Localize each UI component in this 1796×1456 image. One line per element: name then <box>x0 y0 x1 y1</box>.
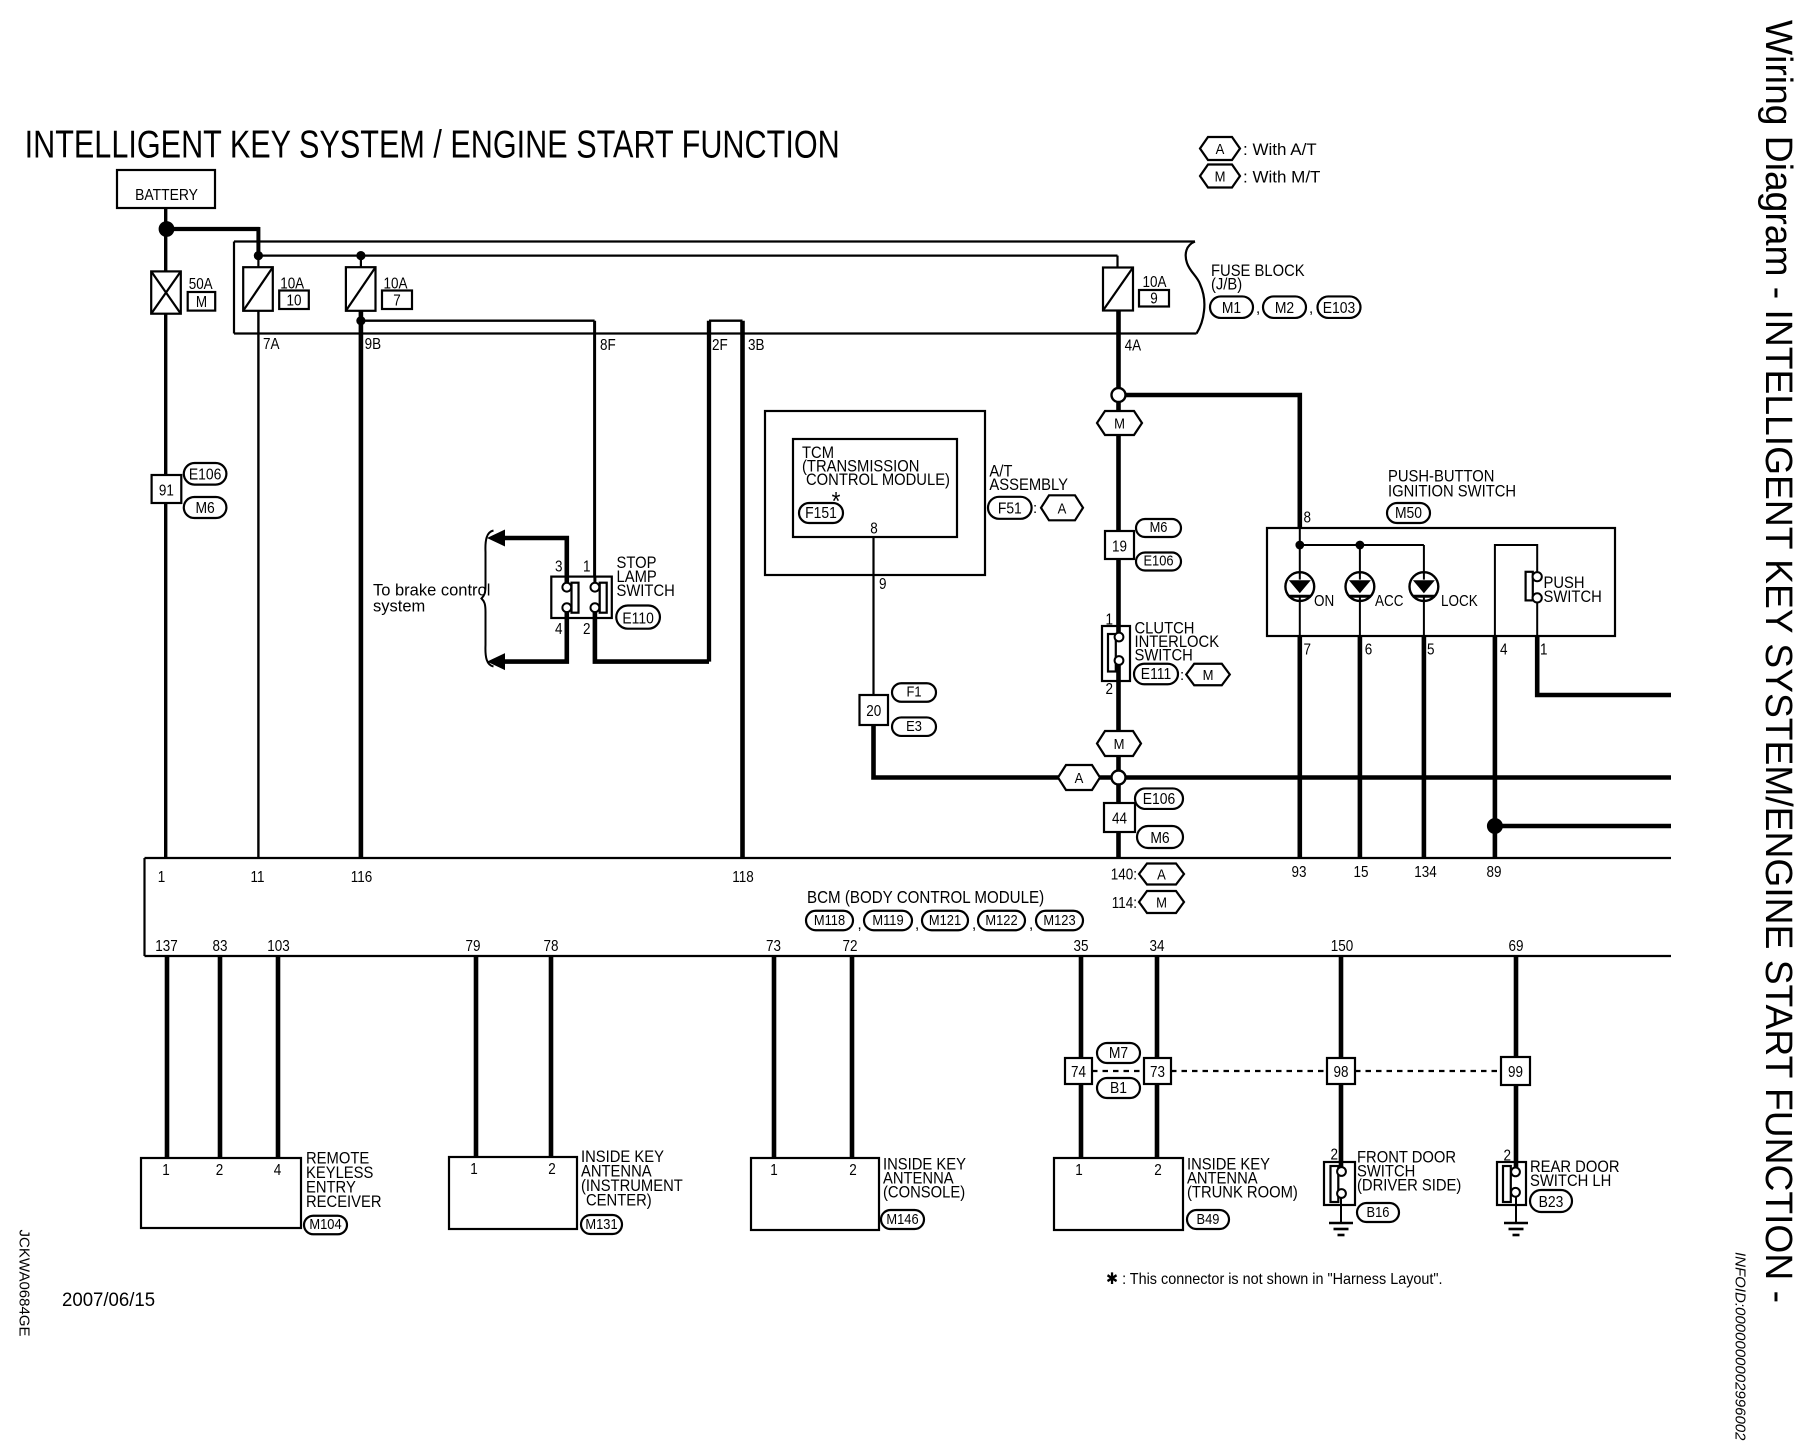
svg-text:M6: M6 <box>195 499 214 517</box>
svg-text:11: 11 <box>251 869 265 886</box>
svg-text:E111: E111 <box>1141 665 1171 683</box>
svg-text:B1: B1 <box>1110 1079 1127 1097</box>
svg-text:1: 1 <box>1106 612 1113 629</box>
svg-text:4: 4 <box>555 621 562 638</box>
svg-text:4A: 4A <box>1125 338 1142 355</box>
svg-text::: : <box>1033 500 1037 517</box>
svg-text:(TRUNK ROOM): (TRUNK ROOM) <box>1187 1184 1298 1202</box>
svg-text:A: A <box>1058 499 1067 516</box>
svg-text:2: 2 <box>1331 1147 1338 1164</box>
svg-text:,: , <box>858 916 862 933</box>
svg-text:93: 93 <box>1292 864 1307 881</box>
svg-text:B16: B16 <box>1367 1203 1390 1220</box>
svg-text:20: 20 <box>866 703 881 720</box>
svg-text:SWITCH: SWITCH <box>1135 647 1193 665</box>
svg-text:M: M <box>1215 168 1226 185</box>
svg-text:SWITCH: SWITCH <box>617 582 675 600</box>
svg-text:116: 116 <box>351 869 372 886</box>
svg-text:73: 73 <box>766 938 781 955</box>
svg-text:B23: B23 <box>1539 1193 1564 1211</box>
svg-text:A: A <box>1216 140 1225 157</box>
svg-text:44: 44 <box>1112 811 1127 828</box>
svg-text:: With A/T: : With A/T <box>1243 140 1317 159</box>
svg-text:M: M <box>1156 894 1167 911</box>
svg-text:ON: ON <box>1314 593 1334 610</box>
svg-text:79: 79 <box>466 938 481 955</box>
svg-text:,: , <box>1256 300 1260 317</box>
svg-text:M: M <box>1114 415 1125 432</box>
svg-text:118: 118 <box>732 869 753 886</box>
svg-text:E103: E103 <box>1323 299 1355 317</box>
svg-text:7A: 7A <box>263 336 280 353</box>
svg-text:8: 8 <box>870 521 877 538</box>
svg-text:99: 99 <box>1508 1064 1523 1081</box>
svg-text:114:: 114: <box>1112 895 1137 912</box>
svg-text:M: M <box>196 294 207 311</box>
svg-text:M: M <box>1114 735 1125 752</box>
svg-text:M50: M50 <box>1395 504 1422 522</box>
svg-text:2: 2 <box>216 1162 223 1179</box>
svg-text:6: 6 <box>1365 642 1372 659</box>
svg-text:140:: 140: <box>1111 867 1137 884</box>
svg-text:2: 2 <box>548 1161 555 1178</box>
svg-text:50A: 50A <box>189 276 213 293</box>
svg-text:M6: M6 <box>1150 829 1169 847</box>
svg-text:M1: M1 <box>1222 299 1241 317</box>
svg-text:2F: 2F <box>712 337 728 354</box>
svg-text:35: 35 <box>1074 938 1089 955</box>
svg-text:A: A <box>1157 866 1166 883</box>
svg-text:2: 2 <box>849 1162 856 1179</box>
svg-text:INTELLIGENT KEY SYSTEM / ENGIN: INTELLIGENT KEY SYSTEM / ENGINE START FU… <box>25 123 840 166</box>
svg-text:73: 73 <box>1150 1064 1165 1081</box>
svg-text:CONTROL MODULE): CONTROL MODULE) <box>806 471 950 489</box>
svg-text:19: 19 <box>1112 539 1127 556</box>
svg-text:M131: M131 <box>585 1215 617 1232</box>
svg-text:78: 78 <box>544 938 559 955</box>
svg-text:LOCK: LOCK <box>1441 593 1478 610</box>
svg-text:3B: 3B <box>748 337 764 354</box>
svg-text:89: 89 <box>1487 864 1502 881</box>
svg-text:(DRIVER SIDE): (DRIVER SIDE) <box>1357 1177 1461 1195</box>
svg-text:8F: 8F <box>600 337 616 354</box>
svg-text:M104: M104 <box>309 1215 341 1232</box>
svg-text:F1: F1 <box>906 683 921 700</box>
svg-text:10A: 10A <box>280 276 304 293</box>
svg-text:M121: M121 <box>929 911 961 928</box>
svg-text::: : <box>1180 667 1184 684</box>
svg-text:IGNITION SWITCH: IGNITION SWITCH <box>1388 483 1516 501</box>
svg-text:: With M/T: : With M/T <box>1243 168 1320 187</box>
svg-text:7: 7 <box>393 293 400 310</box>
svg-text:CENTER): CENTER) <box>586 1192 652 1210</box>
svg-text:9: 9 <box>879 576 886 593</box>
svg-text:*: * <box>832 488 841 517</box>
svg-text:2: 2 <box>1504 1148 1511 1165</box>
svg-text:1: 1 <box>770 1162 777 1179</box>
svg-text:103: 103 <box>267 938 289 955</box>
svg-text:M119: M119 <box>872 911 903 928</box>
svg-text:B49: B49 <box>1197 1210 1220 1227</box>
svg-text:83: 83 <box>213 938 228 955</box>
svg-text:8: 8 <box>1304 510 1311 527</box>
svg-text:ACC: ACC <box>1375 593 1403 610</box>
svg-text:4: 4 <box>1500 642 1507 659</box>
svg-text:ASSEMBLY: ASSEMBLY <box>989 476 1068 494</box>
svg-text:1: 1 <box>158 869 165 886</box>
svg-text:M146: M146 <box>886 1210 918 1227</box>
svg-text:E106: E106 <box>1143 551 1173 568</box>
svg-text:10A: 10A <box>384 276 408 293</box>
svg-text:3: 3 <box>555 559 562 576</box>
svg-text:1: 1 <box>470 1161 477 1178</box>
svg-text:34: 34 <box>1150 938 1165 955</box>
svg-text:M7: M7 <box>1109 1044 1128 1062</box>
svg-text:134: 134 <box>1414 864 1436 881</box>
svg-text:M118: M118 <box>814 911 845 928</box>
svg-text:BATTERY: BATTERY <box>135 186 198 204</box>
svg-text:A: A <box>1075 769 1084 786</box>
svg-text:,: , <box>915 916 919 933</box>
svg-text:1: 1 <box>583 559 590 576</box>
svg-text:4: 4 <box>274 1162 281 1179</box>
svg-text:2: 2 <box>1154 1162 1161 1179</box>
svg-text:69: 69 <box>1509 938 1524 955</box>
svg-text:Wiring Diagram - INTELLIGENT K: Wiring Diagram - INTELLIGENT KEY SYSTEM/… <box>1757 20 1796 1303</box>
svg-text:7: 7 <box>1304 642 1311 659</box>
svg-text:2: 2 <box>1106 681 1113 698</box>
svg-text:M2: M2 <box>1275 299 1294 317</box>
svg-text:9: 9 <box>1150 291 1157 308</box>
svg-text:1: 1 <box>1540 642 1547 659</box>
svg-text:15: 15 <box>1354 864 1369 881</box>
svg-text:M6: M6 <box>1150 518 1168 535</box>
svg-text:E3: E3 <box>906 717 922 734</box>
svg-text:2: 2 <box>583 621 590 638</box>
svg-text:10A: 10A <box>1143 274 1167 291</box>
svg-text:150: 150 <box>1331 938 1353 955</box>
svg-text:(CONSOLE): (CONSOLE) <box>883 1184 965 1202</box>
svg-text:F51: F51 <box>998 500 1022 518</box>
svg-text:5: 5 <box>1427 642 1434 659</box>
svg-text:BCM (BODY CONTROL MODULE): BCM (BODY CONTROL MODULE) <box>807 888 1044 907</box>
svg-text:E106: E106 <box>189 466 221 484</box>
svg-text:137: 137 <box>155 938 177 955</box>
svg-text:,: , <box>1029 916 1033 933</box>
svg-text:,: , <box>1309 300 1313 317</box>
svg-text:SWITCH LH: SWITCH LH <box>1530 1172 1611 1190</box>
svg-text:SWITCH: SWITCH <box>1544 588 1602 606</box>
svg-text:,: , <box>972 916 976 933</box>
svg-text:system: system <box>373 598 425 616</box>
svg-text:JCKWA0684GE: JCKWA0684GE <box>16 1230 33 1337</box>
svg-text:M123: M123 <box>1043 911 1075 928</box>
svg-text:2007/06/15: 2007/06/15 <box>62 1289 155 1310</box>
svg-text:E106: E106 <box>1143 790 1175 808</box>
svg-text:E110: E110 <box>622 610 653 628</box>
svg-text:INFOID:0000000002996002: INFOID:0000000002996002 <box>1732 1252 1749 1441</box>
svg-text:72: 72 <box>843 938 858 955</box>
svg-text:RECEIVER: RECEIVER <box>306 1193 382 1211</box>
svg-text:10: 10 <box>287 293 302 310</box>
svg-text:91: 91 <box>159 483 174 500</box>
svg-text:M: M <box>1203 666 1214 683</box>
svg-text:98: 98 <box>1334 1064 1349 1081</box>
svg-text:1: 1 <box>162 1162 169 1179</box>
svg-text:✱ : This connector is not show: ✱ : This connector is not shown in "Harn… <box>1106 1270 1443 1288</box>
svg-text:74: 74 <box>1071 1064 1086 1081</box>
svg-text:(J/B): (J/B) <box>1211 276 1242 294</box>
svg-text:M122: M122 <box>985 911 1017 928</box>
svg-text:9B: 9B <box>365 336 381 353</box>
svg-text:1: 1 <box>1075 1162 1082 1179</box>
